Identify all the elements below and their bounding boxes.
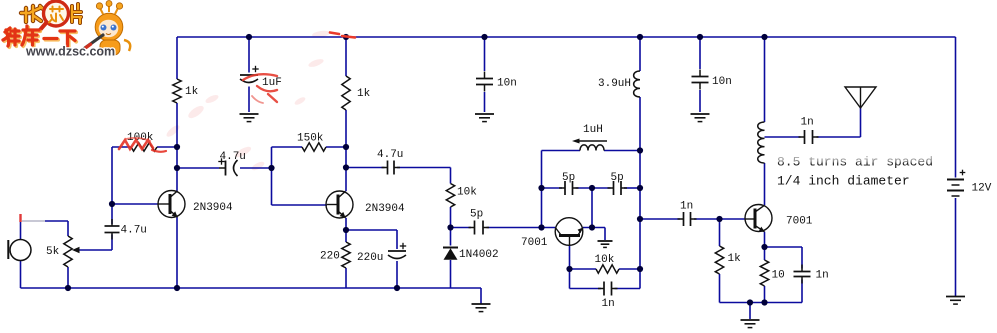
ground below C2 xyxy=(240,113,259,115)
diode D1 1N4002 xyxy=(443,247,458,249)
red scribble over 100k xyxy=(119,138,166,152)
svg-text:10k: 10k xyxy=(595,254,615,266)
wire bus to R3 1k xyxy=(345,37,347,76)
wire bus-end drop to ground xyxy=(480,288,482,304)
svg-text:8.5 turns air spaced: 8.5 turns air spaced xyxy=(777,154,933,169)
capacitor C8 10n xyxy=(484,72,486,79)
wire C7 to Q3 base xyxy=(487,227,556,229)
wire R9 10 to bottom xyxy=(764,286,766,303)
faint watermark smears xyxy=(165,30,331,172)
wire emitter node right xyxy=(765,246,803,248)
transistor Q2 2N3904 xyxy=(326,191,353,218)
wire 100k left lead xyxy=(112,146,131,148)
svg-text:150k: 150k xyxy=(297,132,324,144)
capacitor C4 4.7u xyxy=(382,167,388,169)
resistor R6 10k xyxy=(446,184,454,208)
resistor R5 220 xyxy=(342,242,350,268)
wire battery to ground xyxy=(955,198,957,296)
wire 150k right lead xyxy=(326,146,346,148)
capacitor C10 5p xyxy=(559,187,565,189)
wire mic bottom xyxy=(20,261,22,289)
wire top +12V bus xyxy=(177,36,956,38)
wire node B vertical xyxy=(271,147,273,205)
wire bus to C8 10n xyxy=(484,37,486,71)
svg-text:1/4 inch diameter: 1/4 inch diameter xyxy=(777,173,910,188)
microphone MIC1 xyxy=(10,240,31,261)
wire output bottom bus xyxy=(720,302,803,304)
resistor R8 1k xyxy=(715,246,723,274)
wire L3 to Q4 collector xyxy=(764,163,766,205)
wire osc mid vertical xyxy=(591,188,593,228)
wire Q3 emitter to ground xyxy=(583,227,605,229)
inductor L2 1uH variable xyxy=(580,145,604,151)
capacitor C13 1n antenna xyxy=(799,136,805,138)
node dots xyxy=(246,34,252,40)
wire C13 to antenna xyxy=(817,136,861,138)
svg-text:3.9uH: 3.9uH xyxy=(598,78,631,90)
svg-text:1N4002: 1N4002 xyxy=(459,249,499,261)
ground below C8 xyxy=(475,113,494,115)
wire wiper horizontal xyxy=(74,249,112,251)
wire Q1 collector to C3 xyxy=(177,167,219,169)
red brand characters xyxy=(4,27,76,47)
svg-text:5p: 5p xyxy=(611,172,624,184)
wire Q2 emitter down xyxy=(345,218,347,242)
transistor Q3 7001 oscillator xyxy=(555,218,583,246)
resistor R1 1k xyxy=(173,79,181,103)
svg-text:12V: 12V xyxy=(972,182,992,194)
svg-text:www.dzsc.com: www.dzsc.com xyxy=(25,45,115,59)
svg-text:10n: 10n xyxy=(712,76,732,88)
svg-text:5k: 5k xyxy=(46,246,60,258)
wire C14 to bottom xyxy=(801,280,803,303)
transistor Q4 7001 output xyxy=(745,205,772,232)
ground below C9 xyxy=(691,113,710,115)
svg-text:7001: 7001 xyxy=(521,237,548,249)
wire C1 bottom to wiper xyxy=(111,235,113,251)
svg-text:1n: 1n xyxy=(816,269,829,281)
wire Q1 emitter to ground bus xyxy=(176,217,178,288)
wire mic top stub xyxy=(20,222,22,240)
wire C6 to R6 10k xyxy=(397,167,451,169)
wire bottom ground bus xyxy=(21,287,482,289)
resistor R7 10k feedback xyxy=(596,265,619,273)
wire pot bottom xyxy=(67,267,69,288)
svg-text:1n: 1n xyxy=(801,116,814,128)
wire to C14 1n xyxy=(801,247,803,269)
ground output stage xyxy=(741,319,760,321)
svg-text:10k: 10k xyxy=(457,186,477,198)
svg-text:1k: 1k xyxy=(357,88,371,100)
wire Q3 base lead down xyxy=(569,246,571,289)
resistor R4 150k xyxy=(302,143,326,151)
resistor R2 100k xyxy=(131,143,157,151)
wire C3 to node B xyxy=(240,167,272,169)
svg-text:4.7u: 4.7u xyxy=(377,149,403,161)
ground battery xyxy=(946,296,965,298)
svg-text:1n: 1n xyxy=(680,200,693,212)
wire Q2 collector node to C6 xyxy=(346,167,385,169)
wire L1 to osc node xyxy=(639,97,641,289)
svg-text:10n: 10n xyxy=(497,77,517,89)
wire 100k right lead xyxy=(157,146,177,148)
wire C5 to ground bus xyxy=(396,261,398,288)
wire coil tap to C13 1n xyxy=(765,136,801,138)
wire Q2 base xyxy=(272,204,328,206)
svg-text:1uF: 1uF xyxy=(262,77,282,89)
wire L2 left lead xyxy=(542,150,581,152)
wire L2 right lead xyxy=(604,150,640,152)
svg-text:2N3904: 2N3904 xyxy=(365,203,405,215)
capacitor C5 220u electrolytic xyxy=(388,250,406,252)
capacitor C9 10n xyxy=(699,70,701,77)
capacitor C2 1uF electrolytic xyxy=(240,74,258,76)
red dashes on top bus xyxy=(330,33,355,38)
wire bus to battery xyxy=(955,37,957,178)
wire emitter node to C5 220u xyxy=(346,229,397,231)
wire C9 to ground xyxy=(699,90,701,112)
watermark logo dzsc xyxy=(3,1,130,59)
svg-text:220u: 220u xyxy=(357,252,383,264)
svg-text:1k: 1k xyxy=(728,253,742,265)
wire osc out to C12 1n xyxy=(640,218,680,220)
svg-text:1k: 1k xyxy=(185,86,199,98)
svg-text:10: 10 xyxy=(772,269,785,281)
red scribble near 1uF xyxy=(243,74,277,103)
red mark mic top xyxy=(19,214,21,222)
wire bus to L1 3.9uH xyxy=(639,37,641,71)
wire C2 to ground xyxy=(248,87,250,113)
wire R5 220 to ground bus xyxy=(345,268,347,288)
wire node C to C7 5p xyxy=(451,227,472,229)
capacitor C3 4.7u electrolytic xyxy=(225,161,227,176)
wire D1 to ground bus xyxy=(450,260,452,288)
wire C8 to ground xyxy=(484,92,486,112)
mascot xyxy=(82,1,130,56)
svg-text:5p: 5p xyxy=(470,208,483,220)
potentiometer 5k xyxy=(64,236,72,267)
wire ground stub output xyxy=(749,303,751,320)
antenna ANT1 xyxy=(845,87,876,108)
wire bus down to R1 xyxy=(176,37,178,79)
svg-text:220: 220 xyxy=(320,250,340,262)
ground Q3 emitter xyxy=(598,240,613,242)
wire mic top faint link xyxy=(22,220,45,222)
svg-text:1uH: 1uH xyxy=(583,124,603,136)
resistor R3 1k xyxy=(342,76,350,110)
wire R3 to Q2 collector xyxy=(345,110,347,191)
inductor L3 8.5-turn coil xyxy=(758,122,765,163)
resistor R9 10 xyxy=(760,260,768,286)
wire R8 1k branch xyxy=(719,219,721,246)
svg-text:2N3904: 2N3904 xyxy=(193,202,233,214)
wire 100k-left down to base node xyxy=(111,147,113,224)
svg-text:4.7u: 4.7u xyxy=(121,224,147,236)
wire 1n feedback loop xyxy=(570,288,602,290)
capacitor C6 5p xyxy=(469,227,475,229)
svg-text:1n: 1n xyxy=(602,298,615,310)
svg-text:7001: 7001 xyxy=(786,215,813,227)
wire osc left vertical xyxy=(541,151,543,228)
wire 5p row xyxy=(542,187,563,189)
wire bus to C2 1uF xyxy=(248,37,250,73)
wire bus to C9 10n xyxy=(699,37,701,69)
ground main bus end xyxy=(472,303,491,305)
battery B1 12V xyxy=(947,179,964,181)
wire Q1 base xyxy=(112,203,159,205)
wire R6 to node C xyxy=(450,207,452,246)
capacitor C1 4.7u xyxy=(111,219,113,226)
capacitor C11 5p xyxy=(608,187,614,189)
wire C12 to Q4 base xyxy=(694,218,745,220)
wire 150k left lead xyxy=(272,146,303,148)
capacitor C14 1n xyxy=(801,265,803,272)
wire bus to L3 coil xyxy=(764,37,766,122)
capacitor C12 1n coupling xyxy=(678,218,684,220)
wire R1 to Q1 collector xyxy=(176,103,178,191)
wire Q4 emitter down xyxy=(764,232,766,260)
wire pot top xyxy=(45,220,68,222)
capacitor C15 1n feedback xyxy=(598,288,604,290)
wire 10k row xyxy=(570,268,597,270)
inductor L1 3.9uH xyxy=(634,71,640,97)
transistor Q1 2N3904 xyxy=(158,191,185,218)
svg-text:5p: 5p xyxy=(562,172,575,184)
svg-text:4.7u: 4.7u xyxy=(220,151,246,163)
